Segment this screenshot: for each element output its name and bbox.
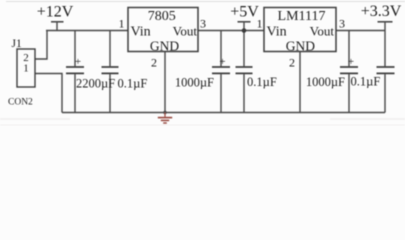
capacitor C 0.1uF (5V) plates bbox=[236, 66, 253, 68]
svg-text:LM1117: LM1117 bbox=[278, 9, 326, 24]
wire: top rail +12V section bbox=[46, 30, 128, 32]
svg-text:1: 1 bbox=[257, 17, 263, 31]
power symbol +12V bar and stem bbox=[51, 21, 64, 23]
svg-text:Vin: Vin bbox=[131, 25, 151, 40]
svg-text:+12V: +12V bbox=[37, 3, 74, 20]
ground symbol (earth, red) bbox=[158, 113, 172, 124]
power symbol +3.3V bar and stem bbox=[378, 21, 393, 23]
connector J1 box bbox=[17, 49, 35, 87]
svg-text:CON2: CON2 bbox=[8, 97, 33, 107]
svg-text:0.1µF: 0.1µF bbox=[351, 75, 381, 89]
capacitor C 1000uF (5V) leads bbox=[220, 31, 222, 67]
capacitor C 0.1uF (3.3V) leads bbox=[384, 31, 386, 67]
capacitor C 1000uF (3.3V) plates bbox=[340, 66, 358, 68]
svg-text:GND: GND bbox=[150, 38, 179, 53]
capacitor C 1000uF (5V) plates bbox=[212, 66, 230, 68]
svg-text:2: 2 bbox=[151, 56, 157, 70]
faint top scan line bbox=[6, 1, 405, 3]
wire: 7805 GND pin drop bbox=[164, 52, 166, 113]
capacitor plates bbox=[66, 67, 395, 73]
svg-text:3: 3 bbox=[200, 17, 206, 31]
svg-text:2200µF: 2200µF bbox=[76, 77, 115, 91]
svg-text:3: 3 bbox=[339, 17, 345, 31]
capacitor C 2200uF plates bbox=[66, 66, 84, 68]
svg-text:1: 1 bbox=[23, 63, 29, 75]
svg-text:+5V: +5V bbox=[230, 3, 259, 20]
capacitor C 0.1uF (5V) leads bbox=[243, 31, 245, 67]
wire: J1 pin2 stub and riser bbox=[35, 31, 47, 60]
svg-text:GND: GND bbox=[286, 38, 315, 53]
faint bottom scan streaks bbox=[0, 118, 70, 120]
svg-text:J1: J1 bbox=[12, 38, 22, 50]
svg-text:1: 1 bbox=[119, 17, 125, 31]
capacitor C 0.1uF (input) leads bbox=[109, 31, 111, 67]
svg-text:+: + bbox=[348, 56, 354, 68]
regulator U2 LM1117 box bbox=[264, 8, 336, 52]
svg-text:2: 2 bbox=[289, 56, 295, 70]
wire: rail right of LM1117 bbox=[336, 30, 385, 32]
wire: J1 pin1 stub and drop bbox=[35, 74, 62, 113]
svg-text:Vout: Vout bbox=[173, 24, 198, 39]
capacitor C 0.1uF (3.3V) plates bbox=[377, 66, 395, 68]
junction dot at ground node bbox=[163, 111, 166, 114]
wire: bottom ground rail bbox=[62, 112, 385, 114]
svg-text:Vout: Vout bbox=[310, 24, 335, 39]
svg-text:1000µF: 1000µF bbox=[175, 76, 214, 90]
svg-text:+3.3V: +3.3V bbox=[361, 3, 402, 20]
regulator U1 7805 box bbox=[128, 8, 198, 52]
svg-text:Vin: Vin bbox=[267, 25, 287, 40]
wire: rail between 7805 and LM1117 bbox=[198, 30, 264, 32]
junction dot at +5V node bbox=[242, 28, 247, 33]
capacitor C 2200uF leads bbox=[74, 31, 76, 67]
capacitor C 1000uF (3.3V) leads bbox=[348, 31, 350, 67]
capacitor C 0.1uF (input) plates bbox=[102, 66, 119, 68]
svg-text:7805: 7805 bbox=[148, 9, 176, 24]
svg-text:0.1µF: 0.1µF bbox=[118, 77, 148, 91]
svg-text:+: + bbox=[219, 56, 225, 68]
svg-text:1000µF: 1000µF bbox=[306, 75, 345, 89]
power symbol +5V bar and stem bbox=[238, 21, 251, 23]
wire: LM1117 GND pin drop bbox=[299, 52, 301, 113]
svg-text:0.1µF: 0.1µF bbox=[247, 75, 277, 89]
svg-text:+: + bbox=[75, 56, 81, 68]
